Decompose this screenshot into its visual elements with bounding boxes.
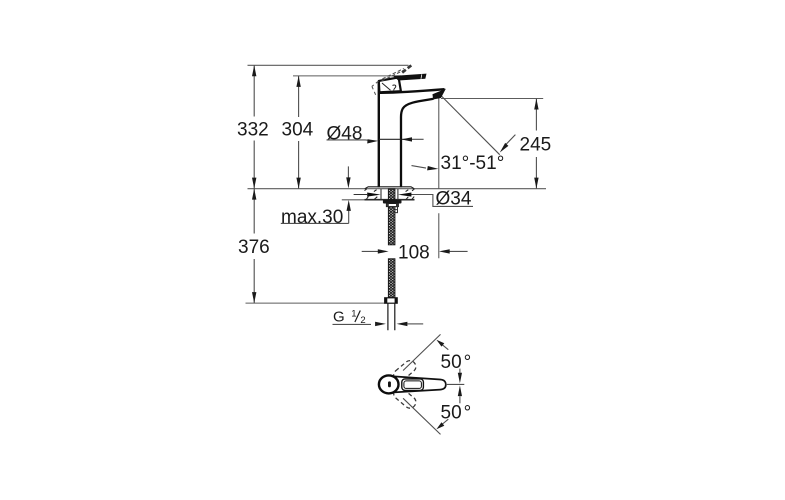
spray direction diagonal <box>441 96 499 155</box>
faucet column left edge <box>378 81 380 187</box>
spout beak (aerator) <box>433 90 445 99</box>
washer <box>386 204 398 207</box>
svg-text:G: G <box>333 309 345 326</box>
pivot cap <box>379 375 399 393</box>
head block <box>379 77 401 92</box>
dimension 332 line <box>252 65 256 188</box>
center line right of lever <box>446 383 465 385</box>
leader arrow to lower radial <box>436 419 448 429</box>
deck line <box>248 188 547 190</box>
deck underside line <box>342 199 415 201</box>
dashed raised lever tip (thick dashes) <box>402 65 411 72</box>
supply tube (G 1/2) <box>388 303 395 330</box>
lever cutout <box>402 379 424 391</box>
svg-text:Ø48: Ø48 <box>327 123 363 144</box>
svg-text:50°: 50° <box>441 402 472 423</box>
svg-text:304: 304 <box>282 119 314 140</box>
dimension 304 line <box>296 76 300 189</box>
svg-text:50°: 50° <box>441 352 472 373</box>
dimension 245 line <box>534 99 538 189</box>
svg-text:332: 332 <box>237 119 269 140</box>
deck section left piece (hatch + arrow) <box>354 189 381 200</box>
vertical reference line at spout tip <box>438 97 440 258</box>
spout top edge <box>379 89 444 93</box>
angular stub lower with arrow <box>458 385 462 403</box>
extension line (304 level) <box>293 75 401 77</box>
bottom nut of shank <box>385 298 398 303</box>
leader arrow to diagonal (from 245 area) <box>500 135 516 153</box>
threaded shank segments <box>388 189 395 298</box>
locknut under deck <box>383 200 402 204</box>
dashed rotated lever upper <box>391 358 418 383</box>
radial line upper (50 deg) <box>403 334 440 370</box>
G1/2 dimension arrows <box>333 322 424 326</box>
radial line lower (50 deg) <box>403 398 440 434</box>
leader arrow to upper radial <box>436 340 448 350</box>
leader arrow to vertical line (31-51) <box>412 166 439 171</box>
dashed closed lever marks <box>372 81 379 95</box>
escutcheon plate on deck <box>365 187 414 189</box>
dimension 376 line <box>252 189 256 304</box>
dimension 108 row <box>362 249 468 253</box>
svg-text:31°-51°: 31°-51° <box>441 153 505 174</box>
extension line spout tip (245 level) <box>441 98 543 100</box>
extension line shank end (376 level) <box>246 302 385 304</box>
svg-text:max.30: max.30 <box>281 207 343 228</box>
Ø48 seam line across column <box>379 138 401 140</box>
pivot tick <box>388 381 391 387</box>
svg-text:1: 1 <box>351 308 356 319</box>
faucet column right edge + spout underside curve <box>401 99 434 188</box>
small step tab <box>395 207 398 213</box>
svg-text:245: 245 <box>520 134 552 155</box>
angular stub upper with arrow <box>458 369 462 384</box>
lever bar (front view) <box>394 74 426 80</box>
head inner reflection lines <box>382 83 396 90</box>
svg-text:376: 376 <box>238 237 270 258</box>
dashed raised lever (double dashed line) <box>382 69 404 82</box>
lever top view <box>394 376 446 392</box>
dashed rotated lever lower <box>391 385 418 410</box>
extension line top (332 level) <box>248 64 409 66</box>
deck section right piece (hatch + arrow) <box>398 189 415 200</box>
svg-text:108: 108 <box>398 242 430 263</box>
